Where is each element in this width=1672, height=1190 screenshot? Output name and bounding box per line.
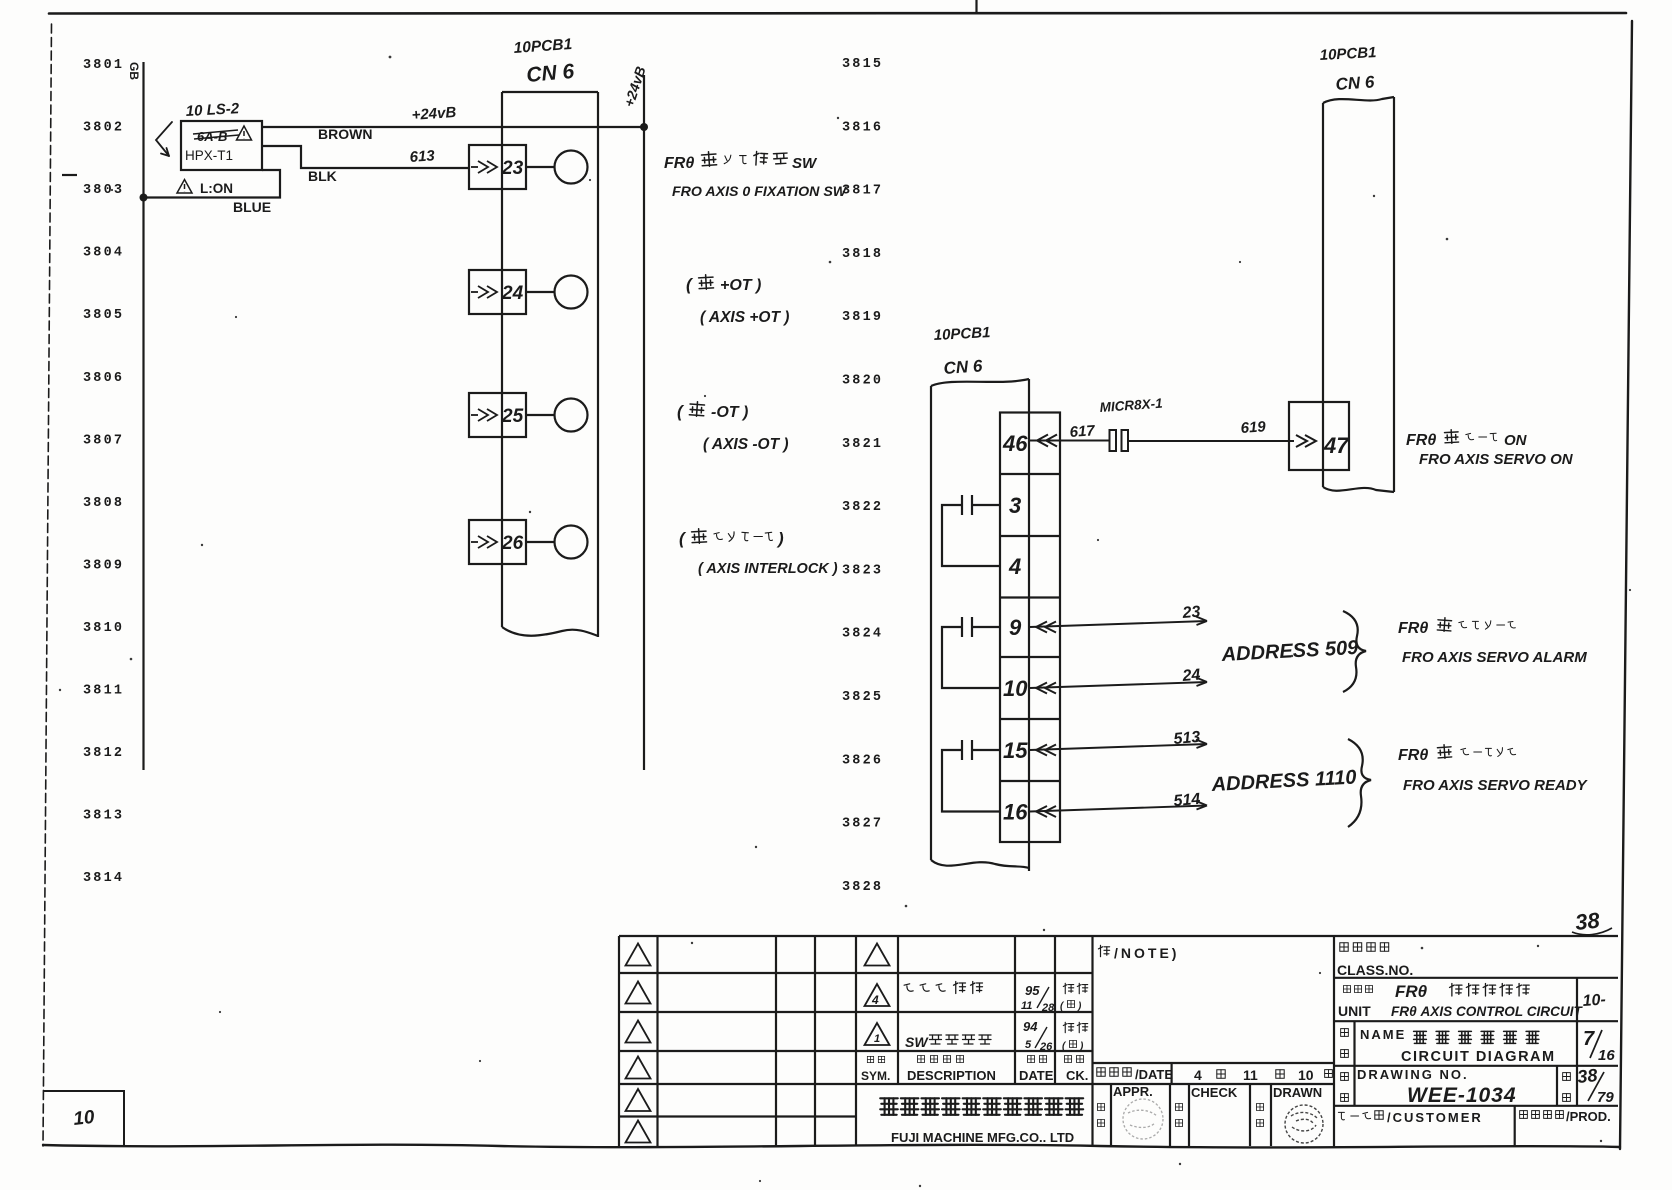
svg-text:HPX-T1: HPX-T1 <box>185 148 233 163</box>
svg-text:28: 28 <box>1041 1002 1055 1014</box>
wire +24vB vertical bus <box>643 75 645 770</box>
wire GB bus vertical <box>142 62 144 770</box>
wire signal 23 <box>1030 617 1207 633</box>
svg-text:BLUE: BLUE <box>233 199 271 215</box>
relay contact MICR8X-1 <box>1110 430 1129 451</box>
svg-text:( AXIS -OT ): ( AXIS -OT ) <box>703 436 789 453</box>
svg-text:3820: 3820 <box>842 374 883 389</box>
name row label col <box>1341 1029 1349 1058</box>
svg-text:FRθ: FRθ <box>664 155 694 172</box>
junction dot blue/GB <box>140 194 148 202</box>
svg-text:3807: 3807 <box>83 433 124 448</box>
svg-text:10PCB1: 10PCB1 <box>1319 44 1377 64</box>
left margin tick <box>62 174 77 176</box>
wire signal 513 <box>1030 740 1207 756</box>
brace for address 1110 <box>1348 739 1371 827</box>
svg-text:4: 4 <box>871 993 879 1007</box>
svg-text:5: 5 <box>1025 1039 1032 1051</box>
svg-text:+24vB: +24vB <box>411 104 457 124</box>
svg-text:FRθ: FRθ <box>1395 982 1428 1001</box>
svg-text:3: 3 <box>1009 493 1021 518</box>
header CK <box>1065 1056 1089 1084</box>
svg-text:CN 6: CN 6 <box>1335 72 1376 94</box>
svg-text:CN 6: CN 6 <box>943 356 984 378</box>
header DATE <box>1019 1056 1054 1084</box>
svg-text:3809: 3809 <box>83 558 124 573</box>
svg-text:1: 1 <box>874 1033 880 1045</box>
svg-text:FRO AXIS SERVO READY: FRO AXIS SERVO READY <box>1403 777 1589 794</box>
svg-text:38: 38 <box>1576 1065 1598 1087</box>
svg-text:+OT ): +OT ) <box>720 277 761 294</box>
svg-text:24: 24 <box>1181 666 1201 685</box>
annotation FRO axis servo alarm (japanese) <box>1398 617 1516 637</box>
stamp appr faint <box>1123 1099 1163 1139</box>
svg-text:617: 617 <box>1069 422 1096 441</box>
svg-text:3822: 3822 <box>842 500 883 515</box>
prod row <box>1520 1109 1611 1124</box>
svg-text:CLASS.NO.: CLASS.NO. <box>1337 962 1413 978</box>
svg-text:3813: 3813 <box>83 809 124 824</box>
lamp at pin 26 <box>526 526 588 559</box>
wire 613 black <box>262 146 469 168</box>
page number box <box>43 1091 124 1145</box>
svg-text:3805: 3805 <box>83 308 124 323</box>
svg-text:10PCB1: 10PCB1 <box>933 324 991 344</box>
svg-text:9: 9 <box>1009 615 1022 640</box>
brace for address 509 <box>1343 611 1366 692</box>
svg-text:/PROD.: /PROD. <box>1566 1109 1611 1124</box>
annotation (axis interlock) japanese <box>679 528 784 548</box>
annotation (axis +OT) japanese <box>686 274 761 294</box>
svg-text:BLK: BLK <box>308 168 337 184</box>
class no box <box>1337 943 1413 978</box>
svg-text:25: 25 <box>501 406 524 427</box>
wire 619 to pin 47 <box>1128 435 1316 447</box>
connector pin ladder (middle) <box>1000 413 1060 843</box>
svg-text:10-: 10- <box>1582 991 1606 1010</box>
svg-text:3827: 3827 <box>842 817 883 832</box>
svg-text:CIRCUIT DIAGRAM: CIRCUIT DIAGRAM <box>1401 1049 1556 1065</box>
page left dashed border <box>43 24 52 1146</box>
svg-text:DRAWN: DRAWN <box>1273 1085 1322 1100</box>
svg-text:3817: 3817 <box>842 184 883 199</box>
date row labels <box>1097 1067 1333 1083</box>
header DESCRIPTION <box>907 1056 996 1084</box>
connector pin 23 <box>469 145 526 189</box>
svg-text:/NOTE): /NOTE) <box>1114 945 1179 961</box>
connector pin 25 <box>469 393 526 437</box>
contact jumper pins 9-10 <box>942 617 1000 688</box>
svg-text:3814: 3814 <box>83 871 124 886</box>
svg-text:CK.: CK. <box>1066 1068 1088 1083</box>
svg-text:95: 95 <box>1025 983 1040 998</box>
svg-text:): ) <box>776 529 784 548</box>
svg-text:FRO AXIS 0 FIXATION SW: FRO AXIS 0 FIXATION SW <box>672 184 848 200</box>
svg-text:3825: 3825 <box>842 690 883 705</box>
svg-text:3826: 3826 <box>842 753 883 768</box>
svg-text:3806: 3806 <box>83 371 124 386</box>
svg-text:11: 11 <box>1021 1000 1032 1012</box>
svg-text:FRθ: FRθ <box>1398 747 1428 764</box>
svg-text:3811: 3811 <box>83 684 124 699</box>
right line-number column 3815-3828 <box>842 57 883 895</box>
connector pin 47 <box>1289 402 1349 470</box>
company name fuji machine (kanji) <box>880 1098 1083 1115</box>
lamp at pin 24 <box>526 276 588 309</box>
svg-text:DRAWING NO.: DRAWING NO. <box>1357 1067 1469 1082</box>
svg-text:15: 15 <box>1003 738 1028 763</box>
svg-text:( AXIS INTERLOCK ): ( AXIS INTERLOCK ) <box>698 561 838 577</box>
drawing no row label col <box>1341 1073 1349 1102</box>
contact jumper pins 15-16 <box>942 740 1000 812</box>
svg-text:): ) <box>1079 1041 1084 1052</box>
svg-text:4: 4 <box>1008 554 1021 579</box>
stamp col CHECK <box>1176 1085 1238 1127</box>
svg-text:DATE: DATE <box>1019 1068 1054 1083</box>
svg-text:3824: 3824 <box>842 627 883 642</box>
svg-text:514: 514 <box>1173 791 1201 810</box>
revision signer yamamoto 2 <box>1062 1022 1088 1052</box>
connector strip body (left) <box>502 92 598 637</box>
svg-text:CN 6: CN 6 <box>525 60 575 87</box>
unit name handwritten japanese <box>1395 982 1529 1001</box>
stamp drawn scribble <box>1285 1105 1323 1143</box>
svg-text:7: 7 <box>1583 1028 1595 1050</box>
svg-text:BROWN: BROWN <box>318 126 372 142</box>
revision row: sensor change <box>904 982 982 994</box>
svg-text:23: 23 <box>1181 603 1201 622</box>
annotation (axis -OT) japanese <box>677 401 748 421</box>
svg-text:3810: 3810 <box>83 621 124 636</box>
lamp at pin 25 <box>526 399 588 432</box>
warning triangle L:ON <box>177 180 192 194</box>
svg-text:10 LS-2: 10 LS-2 <box>185 100 240 120</box>
connector strip body (middle) <box>931 379 1029 871</box>
revision row: SW operation note <box>905 1034 991 1050</box>
svg-text:3808: 3808 <box>83 496 124 511</box>
sheet number 38 handwritten <box>1572 907 1612 935</box>
junction dot +24vB <box>640 123 648 131</box>
svg-text:NAME: NAME <box>1360 1027 1406 1042</box>
page top border <box>49 12 1626 15</box>
svg-text:94: 94 <box>1023 1019 1038 1034</box>
struck-out old part number <box>193 129 239 144</box>
wire 617 from pin 46 <box>1030 435 1109 447</box>
svg-text:3804: 3804 <box>83 246 124 261</box>
svg-text:FUJI MACHINE MFG.CO.. LTD: FUJI MACHINE MFG.CO.. LTD <box>891 1130 1074 1145</box>
svg-text:L:ON: L:ON <box>200 181 233 196</box>
connector pin 24 <box>469 270 526 314</box>
lamp at pin 23 <box>526 151 588 184</box>
svg-text:FRθ AXIS CONTROL CIRCUIT: FRθ AXIS CONTROL CIRCUIT <box>1391 1004 1584 1019</box>
svg-text:10: 10 <box>1298 1067 1314 1083</box>
svg-text:16: 16 <box>1598 1047 1615 1064</box>
svg-text:3812: 3812 <box>83 746 124 761</box>
svg-text:3815: 3815 <box>842 57 883 72</box>
revision signer yamamoto <box>1060 983 1088 1012</box>
svg-text:26: 26 <box>501 533 524 554</box>
stamp col APPR <box>1098 1084 1153 1127</box>
svg-text:3802: 3802 <box>83 121 124 136</box>
wire blue return <box>144 170 281 198</box>
svg-text:ON: ON <box>1504 432 1528 449</box>
svg-text:FRO AXIS SERVO ON: FRO AXIS SERVO ON <box>1419 451 1574 468</box>
wire +24vB brown <box>262 126 644 128</box>
revision triangles middle table <box>865 944 890 1046</box>
svg-text:10: 10 <box>1003 676 1028 701</box>
revision date 95 11/28 <box>1021 983 1055 1014</box>
revision date 94 5/26 <box>1023 1019 1053 1053</box>
wire signal 24 <box>1030 678 1207 694</box>
top tick mark <box>975 0 977 13</box>
page col labels <box>1563 1073 1571 1102</box>
svg-text:3818: 3818 <box>842 247 883 262</box>
svg-text:3828: 3828 <box>842 880 883 895</box>
svg-text:SW: SW <box>792 155 818 172</box>
svg-text:3801: 3801 <box>83 58 124 73</box>
svg-text:23: 23 <box>501 158 524 179</box>
svg-text:513: 513 <box>1173 729 1201 748</box>
svg-text:-OT ): -OT ) <box>711 404 748 421</box>
stamp col DRAWN <box>1257 1085 1323 1127</box>
page fraction 7/16 <box>1583 1028 1615 1064</box>
svg-text:3816: 3816 <box>842 120 883 135</box>
title block frame <box>619 936 1618 1147</box>
svg-text:79: 79 <box>1597 1089 1614 1106</box>
svg-text:FRO AXIS SERVO ALARM: FRO AXIS SERVO ALARM <box>1402 649 1587 666</box>
annotation FRO axis 0 fixation SW (japanese) <box>664 151 818 172</box>
svg-text:619: 619 <box>1240 418 1267 437</box>
svg-text:10: 10 <box>72 1107 96 1130</box>
svg-text:( AXIS +OT ): ( AXIS +OT ) <box>700 309 789 326</box>
svg-text:FRθ: FRθ <box>1406 432 1436 449</box>
unit row labels <box>1338 986 1373 1020</box>
svg-text:3803: 3803 <box>83 183 124 198</box>
note label <box>1098 945 1179 961</box>
svg-text:/CUSTOMER: /CUSTOMER <box>1387 1110 1483 1125</box>
svg-text:3823: 3823 <box>842 563 883 578</box>
page right border <box>1620 21 1632 1149</box>
svg-text:CHECK: CHECK <box>1191 1085 1238 1100</box>
page fraction 38/79 <box>1576 1065 1614 1106</box>
customer row <box>1338 1110 1482 1125</box>
warning triangle in switch <box>237 126 252 140</box>
svg-text:24: 24 <box>501 283 524 304</box>
connector strip body (right) <box>1323 97 1394 492</box>
svg-text:38: 38 <box>1574 907 1602 935</box>
annotation FRO axis servo ready (japanese) <box>1398 744 1516 764</box>
contact jumper pins 3-4 <box>942 495 1000 566</box>
svg-text:GB: GB <box>127 62 141 80</box>
svg-text:DESCRIPTION: DESCRIPTION <box>907 1068 996 1083</box>
svg-text:): ) <box>1077 1001 1082 1012</box>
pointer arrow to switch <box>156 122 172 156</box>
svg-text:UNIT: UNIT <box>1338 1003 1371 1019</box>
page bottom border <box>43 1145 1620 1148</box>
wire signal 514 <box>1030 801 1207 817</box>
svg-text:SYM.: SYM. <box>861 1069 890 1083</box>
revision triangles left table <box>626 944 651 1143</box>
svg-text:SW: SW <box>905 1034 929 1050</box>
drawing name kanji <box>1414 1031 1539 1043</box>
svg-text:/DATE: /DATE <box>1135 1067 1173 1082</box>
svg-text:47: 47 <box>1323 433 1350 458</box>
svg-text:WEE-1034: WEE-1034 <box>1407 1084 1517 1107</box>
annotation FRO axis servo ON (japanese) <box>1406 429 1528 449</box>
header SYM <box>861 1056 890 1083</box>
svg-text:APPR.: APPR. <box>1113 1084 1153 1099</box>
svg-text:46: 46 <box>1002 431 1028 456</box>
svg-text:3821: 3821 <box>842 437 883 452</box>
svg-text:4: 4 <box>1194 1067 1202 1083</box>
switch HPX-T1 body <box>181 121 262 170</box>
svg-text:FRθ: FRθ <box>1398 620 1428 637</box>
svg-text:11: 11 <box>1243 1067 1258 1083</box>
connector pin 26 <box>469 520 526 564</box>
svg-text:26: 26 <box>1039 1041 1053 1053</box>
svg-text:3819: 3819 <box>842 310 883 325</box>
svg-text:16: 16 <box>1003 800 1028 825</box>
svg-text:613: 613 <box>409 147 436 166</box>
left line-number column 3801-3814 <box>83 58 124 886</box>
